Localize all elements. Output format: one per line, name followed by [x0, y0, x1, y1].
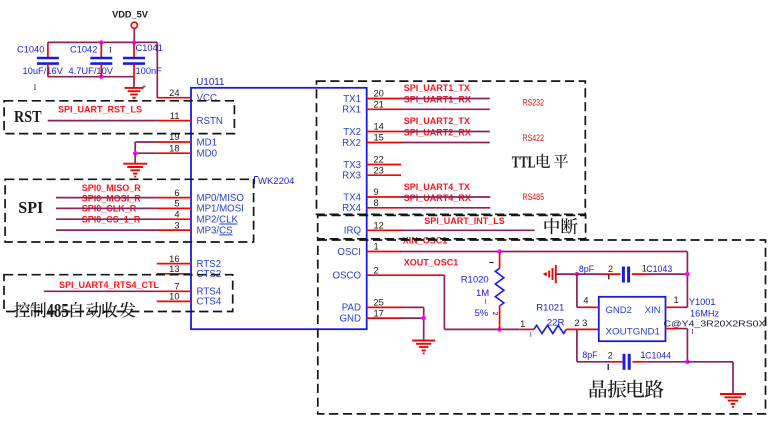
svg-text:I: I: [530, 332, 532, 339]
pin 21 RX1: [342, 100, 401, 116]
svg-text:GND2: GND2: [606, 305, 632, 316]
resistor R1020: [461, 252, 504, 330]
svg-text:6: 6: [174, 188, 179, 198]
junction: [99, 40, 103, 44]
ic U1011 body: [191, 77, 367, 329]
svg-text:22: 22: [374, 155, 384, 165]
svg-text:CTS4: CTS4: [197, 297, 222, 308]
svg-text:5%: 5%: [475, 308, 489, 319]
svg-text:TX2: TX2: [343, 127, 361, 138]
svg-text:RX3: RX3: [342, 171, 361, 182]
power flag VDD_5V: [112, 10, 149, 29]
wire: [48, 76, 134, 78]
svg-text:4: 4: [583, 296, 588, 306]
ground: [123, 164, 147, 178]
wire: [666, 306, 688, 308]
net SPI0_CLK_R: [82, 204, 137, 214]
svg-text:23: 23: [374, 165, 384, 175]
dashed box 485: [4, 275, 233, 312]
svg-text:TX1: TX1: [343, 94, 361, 105]
wire: [134, 153, 136, 164]
svg-text:SPI_UART4_RTS4_CTL: SPI_UART4_RTS4_CTL: [59, 280, 160, 290]
pin 19 MD1: [157, 132, 217, 148]
junction: [99, 75, 103, 79]
svg-text:R1020: R1020: [461, 274, 489, 285]
wire: [666, 329, 688, 362]
resistor R1021: [520, 303, 587, 340]
pin 2 OSCO: [332, 265, 401, 281]
svg-text:TX4: TX4: [343, 192, 361, 203]
wire: [577, 329, 612, 361]
net XOUT_OSC1: [404, 257, 520, 329]
svg-text:I: I: [34, 83, 37, 92]
label 控制485自动收发: [14, 301, 136, 322]
svg-text:8pF: 8pF: [582, 350, 598, 360]
svg-text:I: I: [485, 299, 487, 306]
svg-text:PAD: PAD: [342, 303, 361, 314]
svg-text:100nF: 100nF: [136, 66, 163, 76]
wire: [56, 207, 157, 209]
junction: [685, 272, 689, 276]
wire: [577, 306, 599, 308]
svg-text:1: 1: [374, 242, 379, 252]
svg-text:+: +: [142, 84, 146, 91]
wire: [56, 218, 157, 220]
pin 22 TX3: [343, 155, 401, 171]
svg-text:I: I: [109, 46, 112, 55]
pin 23 RX3: [342, 165, 401, 181]
svg-text:I: I: [692, 329, 694, 336]
svg-text:SPI0_MOSI_R: SPI0_MOSI_R: [82, 194, 142, 204]
net SPI_UART1_RX: [404, 94, 471, 104]
wire: [576, 274, 578, 307]
svg-text:21: 21: [374, 100, 384, 110]
svg-text:17: 17: [374, 308, 384, 318]
wire: [401, 98, 490, 100]
pin 12 IRQ: [344, 221, 401, 237]
svg-text:7: 7: [174, 282, 179, 292]
svg-text:MP1/MOSI: MP1/MOSI: [197, 204, 244, 215]
pin 18 MD0: [157, 143, 218, 159]
svg-text:RSTN: RSTN: [197, 116, 223, 127]
svg-text:C1044: C1044: [645, 351, 671, 361]
capacitor C1043: [579, 264, 672, 283]
label RS485: [523, 192, 545, 202]
label RS422: [523, 133, 545, 143]
svg-text:TX3: TX3: [343, 160, 361, 171]
wire: [566, 328, 599, 330]
svg-text:RX4: RX4: [342, 203, 361, 214]
wire: [401, 142, 490, 144]
pin 5 MP1/MOSI: [157, 199, 244, 215]
svg-text:MD1: MD1: [197, 137, 217, 148]
svg-text:RX1: RX1: [342, 105, 361, 116]
svg-text:MP0/MISO: MP0/MISO: [197, 193, 245, 204]
wire: [401, 108, 490, 110]
svg-text:C1042: C1042: [70, 45, 97, 55]
pin 14 TX2: [343, 122, 401, 138]
pin 25 PAD: [342, 298, 401, 314]
pin 3 MP3/CS: [157, 220, 233, 236]
svg-text:GND: GND: [339, 313, 361, 324]
pin 8 RX4: [342, 198, 401, 214]
wire: [401, 307, 424, 340]
dashed box SPI: [5, 179, 254, 242]
svg-text:SPI_UART2_TX: SPI_UART2_TX: [404, 116, 470, 126]
svg-text:WK2204: WK2204: [258, 176, 294, 187]
svg-text:1M: 1M: [476, 288, 489, 299]
wire: [135, 142, 157, 153]
wire: [401, 317, 424, 319]
svg-text:2: 2: [608, 351, 613, 361]
svg-text:SPI_UART4_TX: SPI_UART4_TX: [404, 182, 470, 192]
svg-text:1: 1: [520, 319, 525, 329]
wire: [56, 229, 157, 231]
net SPI_UART_INT_LS: [401, 216, 535, 230]
pin 15 RX2: [342, 133, 401, 149]
svg-text:11: 11: [170, 111, 180, 121]
label SPI: [18, 198, 43, 217]
wire: [56, 197, 157, 199]
ground: [720, 394, 746, 408]
svg-text:9: 9: [374, 187, 379, 197]
wire: [133, 77, 135, 88]
svg-text:C@Y4_3R20X2RS0X: C@Y4_3R20X2RS0X: [664, 318, 766, 328]
net XIN_OSC1: [400, 236, 687, 308]
wire: [48, 41, 158, 43]
svg-text:OSCO: OSCO: [332, 271, 361, 282]
svg-text:IRQ: IRQ: [344, 226, 362, 237]
svg-text:10: 10: [169, 292, 179, 302]
dashed box RST: [4, 101, 234, 134]
net SPI_UART4_TX: [404, 182, 470, 192]
svg-text:C1041: C1041: [136, 43, 163, 53]
svg-text:XIN: XIN: [645, 305, 661, 316]
svg-text:RX2: RX2: [342, 138, 361, 149]
junction: [133, 151, 137, 155]
pin 16 RTS2: [157, 254, 221, 270]
svg-text:12: 12: [374, 221, 384, 231]
svg-text:C1040: C1040: [17, 45, 44, 55]
wire: [687, 362, 733, 394]
svg-text:OSCI: OSCI: [337, 247, 361, 258]
svg-text:C1043: C1043: [646, 264, 672, 274]
junction: [497, 249, 501, 253]
label 晶振电路: [590, 380, 664, 398]
pin 11 RSTN: [157, 111, 223, 127]
junction: [497, 327, 501, 331]
svg-text:RS422: RS422: [523, 133, 545, 143]
svg-text:U1011: U1011: [196, 77, 224, 88]
net SPI_UART4_RTS4_CTL: [44, 280, 160, 291]
wire: [156, 42, 158, 97]
svg-text:SPI_UART1_TX: SPI_UART1_TX: [404, 83, 470, 93]
svg-text:R1021: R1021: [536, 303, 564, 314]
svg-text:25: 25: [374, 298, 384, 308]
wire: [133, 29, 135, 43]
svg-text:RST: RST: [14, 107, 42, 126]
svg-text:SPI_UART4_RX: SPI_UART4_RX: [404, 193, 471, 203]
wire: [401, 131, 490, 133]
wire: [519, 328, 534, 330]
wire: [577, 273, 604, 275]
net SPI_UART_RST_LS: [48, 105, 157, 121]
label 中断: [545, 218, 578, 234]
svg-text:8pF: 8pF: [579, 264, 595, 274]
pin 20 TX1: [343, 89, 401, 105]
svg-text:VDD_5V: VDD_5V: [112, 10, 149, 20]
svg-text:15: 15: [374, 133, 384, 143]
svg-text:18: 18: [169, 143, 179, 153]
svg-text:SPI_UART_RST_LS: SPI_UART_RST_LS: [58, 105, 142, 115]
net SPI_UART2_TX: [404, 116, 470, 126]
svg-text:4: 4: [174, 209, 179, 219]
wire: [556, 273, 577, 275]
wire: [135, 152, 157, 154]
svg-text:2: 2: [491, 312, 498, 316]
net SPI0_MISO_R: [82, 183, 142, 193]
net SPI_UART4_RX: [404, 193, 471, 203]
ground: [412, 341, 435, 355]
pin 4 MP2/CLK: [157, 209, 239, 225]
capacitor C1042: [69, 42, 114, 76]
junction: [132, 40, 136, 44]
svg-text:RS485: RS485: [523, 192, 545, 202]
svg-text:3: 3: [174, 220, 179, 230]
capacitor C1044: [582, 350, 671, 370]
svg-text:SPI_UART_INT_LS: SPI_UART_INT_LS: [424, 216, 505, 226]
junction: [575, 272, 579, 276]
net SPI0_MOSI_R: [82, 194, 142, 204]
wire: [401, 196, 490, 198]
label RS232: [523, 97, 545, 107]
crystal Y1001: [583, 295, 765, 341]
junction: [685, 360, 689, 364]
svg-text:TTL: TTL: [512, 152, 536, 171]
wire: [645, 361, 688, 363]
svg-text:4.7UF/10V: 4.7UF/10V: [69, 66, 114, 76]
dashed box 晶振电路: [318, 240, 766, 414]
capacitor C1041: [123, 42, 163, 76]
svg-text:22R: 22R: [547, 318, 565, 329]
svg-text:8: 8: [374, 198, 379, 208]
svg-text:24: 24: [169, 88, 179, 98]
svg-text:14: 14: [374, 122, 384, 132]
mark: [34, 83, 37, 92]
pin 9 TX4: [343, 187, 401, 203]
junction: [422, 316, 426, 320]
svg-text:5: 5: [174, 199, 179, 209]
net SPI_UART2_RX: [404, 127, 471, 137]
svg-text:16: 16: [169, 254, 179, 264]
svg-text:1: 1: [674, 295, 679, 305]
svg-text:10uF/16V: 10uF/16V: [23, 66, 64, 76]
svg-text:16MHz: 16MHz: [690, 309, 720, 319]
dashed box 中断: [318, 215, 586, 238]
svg-text:VCC: VCC: [197, 93, 217, 104]
label TTL电平: [512, 152, 568, 171]
capacitor C1040: [17, 42, 64, 76]
svg-text:2: 2: [374, 265, 379, 275]
pin 10 CTS4: [157, 292, 222, 308]
svg-text:XOUT_OSC1: XOUT_OSC1: [404, 257, 459, 267]
pin 24 VCC: [157, 88, 217, 104]
pin 7 RTS4: [157, 282, 222, 298]
wire: [401, 207, 490, 209]
svg-text:SPI: SPI: [18, 198, 43, 217]
dashed box TTL: [317, 81, 586, 214]
pin 6 MP0/MISO: [157, 188, 245, 204]
ground: [125, 84, 147, 102]
pin 1 OSCI: [337, 242, 401, 258]
net SPI0_CS_1_R: [82, 214, 141, 224]
label RST: [14, 107, 42, 126]
svg-text:RS232: RS232: [523, 97, 545, 107]
svg-text:2: 2: [608, 264, 613, 274]
svg-text:20: 20: [374, 89, 384, 99]
net SPI_UART1_TX: [404, 83, 470, 93]
pin 17 GND: [339, 308, 401, 324]
mark: [109, 46, 112, 55]
ground: [544, 265, 556, 283]
svg-text:2 3: 2 3: [574, 318, 587, 328]
svg-text:13: 13: [169, 264, 179, 274]
wire: [401, 274, 444, 276]
wire: [648, 273, 687, 275]
pin 13 CTS2: [157, 264, 221, 280]
svg-text:Y1001: Y1001: [689, 297, 716, 307]
svg-text:485: 485: [46, 301, 69, 322]
svg-text:SPI0_MISO_R: SPI0_MISO_R: [82, 183, 142, 193]
svg-text:MD0: MD0: [197, 149, 218, 160]
svg-text:XOUTGND1: XOUTGND1: [606, 326, 661, 337]
